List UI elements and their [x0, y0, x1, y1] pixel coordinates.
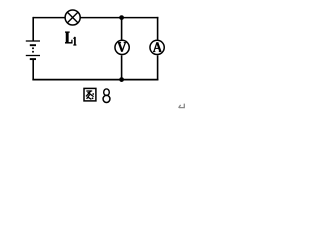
ammeter U2 letter A: [153, 42, 161, 51]
wire bottom: [32, 79, 158, 81]
caption character tu (figure) box: [84, 88, 96, 101]
node junction dot top: [119, 15, 124, 20]
wire left rail top stub: [32, 17, 34, 41]
lamp L1 cross: [67, 12, 78, 23]
battery B1 dot 2: [32, 51, 34, 53]
wire voltmeter branch upper: [121, 18, 123, 40]
wire right rail lower: [157, 55, 159, 80]
wire top from battery to lamp: [33, 17, 64, 19]
battery B1 long plate 2: [26, 55, 40, 57]
wire top from lamp to right corner: [81, 17, 159, 19]
label L1 subscript 1: [73, 37, 76, 45]
ammeter U2 circle: [150, 40, 164, 54]
caption digit 8 upper loop: [104, 89, 110, 96]
lamp L1 circle: [65, 10, 80, 25]
wire voltmeter branch lower: [121, 55, 123, 79]
battery B1 long plate 1: [26, 40, 40, 42]
caption character tu inner dots: [92, 93, 94, 95]
battery B1 short plate 2: [30, 58, 36, 60]
caption digit 8 lower loop: [103, 95, 110, 102]
wire right rail upper: [157, 17, 159, 40]
battery B1 short plate 1: [30, 44, 36, 46]
voltmeter U1 circle: [115, 40, 129, 54]
node junction dot bottom: [119, 77, 124, 82]
wire left rail bottom stub: [32, 59, 34, 80]
paragraph return mark: [179, 104, 185, 108]
battery B1 dot 1: [32, 47, 34, 49]
label L1 letter L: [65, 32, 72, 44]
caption character tu inner strokes: [86, 91, 94, 100]
voltmeter U1 letter V: [118, 43, 127, 52]
